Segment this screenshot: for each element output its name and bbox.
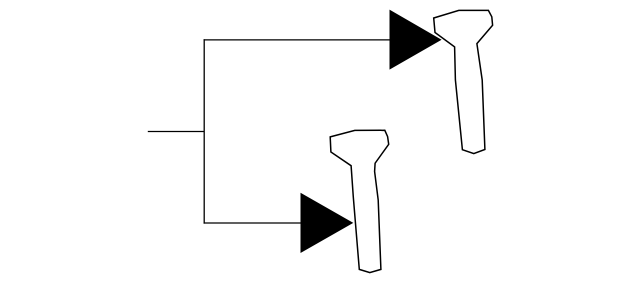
wire: vertical branch [203,39,205,223]
wire: top branch to buffer [204,39,391,41]
buffer amplifier (top triangle) [390,11,441,69]
buffer amplifier (bottom triangle) [301,194,352,253]
wire: input lead [148,131,204,133]
transducer symbol (nail-shaped outline, top) [434,10,493,153]
wire: bottom branch to buffer [204,222,302,224]
transducer symbol (nail-shaped outline, bottom) [330,130,389,272]
